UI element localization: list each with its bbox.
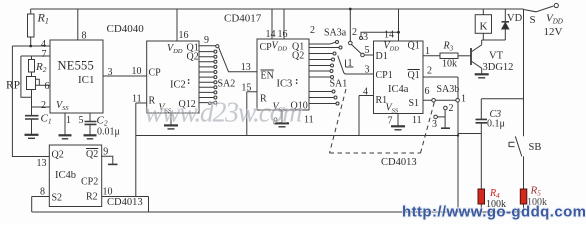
svg-text:5: 5 (79, 115, 84, 126)
svg-text:3: 3 (365, 65, 370, 76)
svg-text:4: 4 (363, 87, 368, 98)
svg-text:IC4a: IC4a (388, 84, 409, 95)
svg-text:10k: 10k (442, 59, 457, 70)
svg-text:S1: S1 (409, 98, 420, 109)
svg-text:CP2: CP2 (81, 177, 98, 188)
svg-text:Q2: Q2 (86, 149, 98, 160)
svg-text:2: 2 (449, 103, 454, 114)
svg-text:1: 1 (461, 94, 466, 105)
svg-text:2: 2 (310, 25, 315, 36)
svg-text:Q2: Q2 (187, 52, 199, 63)
svg-text:CP1: CP1 (376, 70, 393, 81)
svg-text:7: 7 (42, 49, 47, 60)
svg-text:12V: 12V (544, 26, 563, 38)
svg-text:3: 3 (108, 67, 113, 78)
svg-text:0.1μ: 0.1μ (487, 119, 505, 130)
svg-text:www.d23w.com: www.d23w.com (145, 98, 303, 129)
svg-text:EN: EN (261, 71, 274, 82)
svg-text:14: 14 (384, 30, 394, 41)
svg-text:R3: R3 (443, 41, 454, 53)
svg-text:16: 16 (278, 29, 288, 40)
svg-text:http://www.go-gddq.com: http://www.go-gddq.com (402, 204, 586, 221)
svg-text:1: 1 (66, 115, 71, 126)
svg-text:8: 8 (82, 31, 87, 42)
svg-text:SB: SB (529, 142, 542, 153)
svg-text:13: 13 (37, 158, 47, 169)
svg-text:11: 11 (304, 115, 314, 126)
svg-text:SA3b: SA3b (437, 84, 460, 95)
svg-text:2: 2 (427, 66, 432, 77)
svg-text:R2: R2 (86, 192, 98, 203)
svg-text:D1: D1 (376, 51, 388, 62)
svg-text:9: 9 (103, 147, 108, 158)
svg-text:Q2: Q2 (52, 150, 64, 161)
svg-text:VT: VT (489, 51, 504, 62)
svg-text:Q1: Q1 (408, 41, 420, 52)
svg-text::: : (187, 76, 190, 87)
svg-text:1: 1 (425, 46, 430, 57)
svg-text:IC1: IC1 (78, 74, 95, 86)
svg-text:VSS: VSS (56, 100, 69, 112)
svg-text:2: 2 (352, 27, 357, 38)
svg-text:R5: R5 (530, 185, 542, 198)
svg-text:VSS: VSS (386, 103, 399, 115)
svg-text:16: 16 (179, 30, 189, 41)
svg-text:11: 11 (132, 94, 142, 105)
svg-text:5: 5 (365, 45, 370, 56)
svg-text:VDD: VDD (384, 41, 400, 53)
svg-text:NE555: NE555 (58, 59, 94, 73)
svg-text::: : (295, 76, 298, 87)
svg-text:10: 10 (103, 187, 113, 198)
svg-text:1: 1 (348, 58, 353, 69)
svg-text:SA2: SA2 (218, 79, 236, 90)
svg-text:3DG12: 3DG12 (483, 62, 514, 73)
svg-text:CD4013: CD4013 (381, 157, 417, 168)
svg-text:CD4040: CD4040 (107, 23, 145, 35)
svg-text:13: 13 (241, 62, 251, 73)
svg-text:IC2: IC2 (170, 80, 186, 91)
svg-text:S2: S2 (52, 193, 63, 204)
svg-text:VDD: VDD (167, 43, 183, 55)
svg-text:0.01μ: 0.01μ (97, 127, 120, 138)
svg-text:Q1: Q1 (408, 70, 420, 81)
svg-text:VD: VD (507, 13, 523, 24)
svg-text:10: 10 (132, 66, 142, 77)
svg-text:K: K (480, 21, 488, 33)
svg-text:RP: RP (6, 80, 20, 92)
svg-text:C1: C1 (41, 113, 52, 126)
svg-text:CD4013: CD4013 (107, 197, 143, 208)
svg-text:6: 6 (425, 86, 430, 97)
svg-text:R2: R2 (35, 61, 47, 74)
svg-text:11: 11 (412, 115, 422, 126)
svg-text:SA3a: SA3a (324, 28, 347, 39)
svg-text:R1: R1 (37, 11, 49, 26)
svg-text:CD4017: CD4017 (224, 13, 262, 25)
svg-text:IC3: IC3 (277, 79, 293, 90)
svg-text:VDD: VDD (272, 41, 288, 53)
svg-text:7: 7 (388, 116, 393, 127)
svg-text:9: 9 (204, 35, 209, 46)
svg-text:3: 3 (432, 119, 437, 130)
svg-text:8: 8 (40, 187, 45, 198)
svg-text:15: 15 (241, 83, 251, 94)
svg-text:CP: CP (260, 42, 273, 53)
svg-text:14: 14 (266, 29, 276, 40)
svg-text:VDD: VDD (546, 13, 563, 26)
svg-text:CP: CP (149, 68, 162, 79)
svg-text:SA1: SA1 (330, 79, 348, 90)
svg-text:2: 2 (41, 100, 46, 111)
svg-text:Q2: Q2 (292, 51, 304, 62)
svg-text:S: S (530, 14, 536, 26)
svg-text:IC4b: IC4b (55, 170, 76, 181)
svg-text:3: 3 (363, 32, 368, 43)
svg-text:6: 6 (45, 81, 50, 92)
